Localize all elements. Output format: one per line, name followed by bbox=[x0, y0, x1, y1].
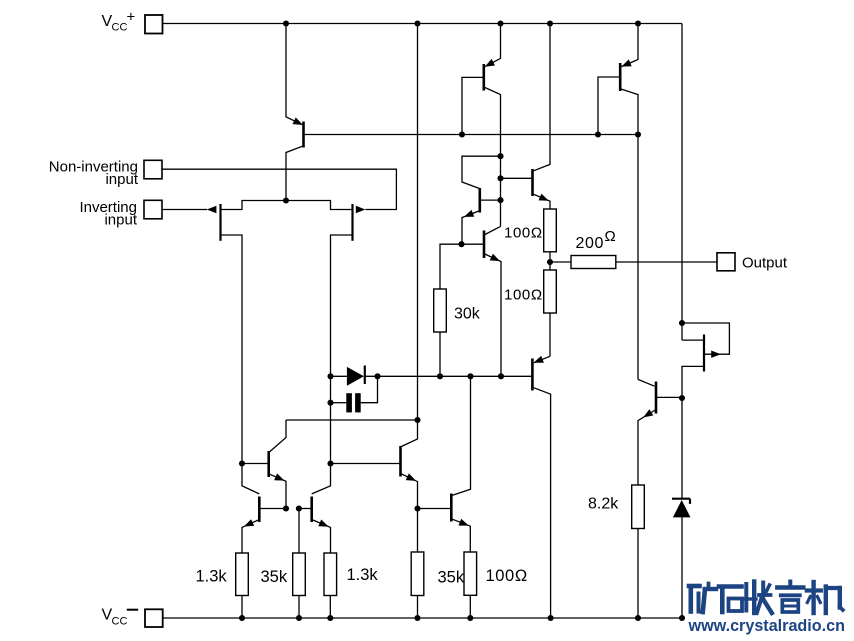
svg-text:100Ω: 100Ω bbox=[504, 286, 543, 303]
svg-text:CC: CC bbox=[112, 22, 128, 34]
svg-text:www.crystalradio.cn: www.crystalradio.cn bbox=[688, 616, 845, 635]
svg-text:8.2k: 8.2k bbox=[588, 496, 619, 513]
svg-text:100Ω: 100Ω bbox=[504, 225, 543, 242]
svg-text:input: input bbox=[105, 171, 138, 188]
svg-text:1.3k: 1.3k bbox=[196, 567, 228, 585]
svg-text:+: + bbox=[127, 9, 136, 26]
svg-text:Output: Output bbox=[742, 254, 788, 271]
svg-text:35k: 35k bbox=[261, 568, 288, 586]
svg-text:30k: 30k bbox=[454, 305, 481, 322]
svg-text:input: input bbox=[104, 211, 137, 228]
svg-text:Ω: Ω bbox=[605, 228, 616, 245]
svg-text:35k: 35k bbox=[438, 568, 465, 586]
svg-text:CC: CC bbox=[112, 615, 128, 627]
svg-text:100Ω: 100Ω bbox=[486, 567, 528, 585]
svg-text:1.3k: 1.3k bbox=[347, 566, 379, 584]
svg-text:200: 200 bbox=[576, 235, 605, 252]
